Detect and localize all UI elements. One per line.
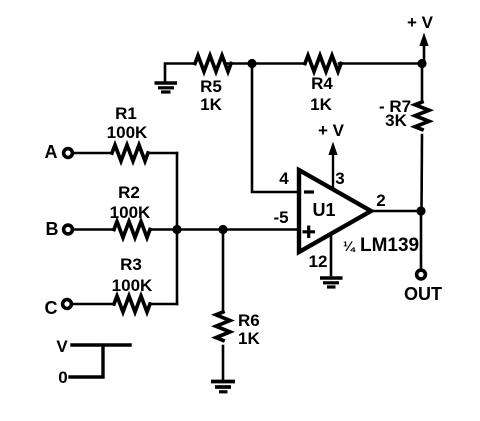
svg-text:¼ LM139: ¼ LM139 xyxy=(343,235,419,256)
svg-text:R3: R3 xyxy=(120,255,142,274)
svg-text:1K: 1K xyxy=(200,95,222,114)
svg-text:+ V: + V xyxy=(407,13,434,32)
svg-text:3: 3 xyxy=(335,169,344,188)
svg-text:R6: R6 xyxy=(238,311,260,330)
svg-text:R1: R1 xyxy=(115,104,137,123)
svg-text:1K: 1K xyxy=(238,329,260,348)
svg-text:4: 4 xyxy=(279,169,289,188)
svg-text:V: V xyxy=(56,337,68,356)
svg-text:100K: 100K xyxy=(107,123,148,142)
svg-text:12: 12 xyxy=(309,252,328,271)
svg-text:A: A xyxy=(45,142,58,162)
svg-text:U1: U1 xyxy=(312,200,335,220)
svg-text:B: B xyxy=(46,219,59,239)
svg-text:R4: R4 xyxy=(311,74,333,93)
svg-text:3K: 3K xyxy=(385,111,407,130)
svg-text:OUT: OUT xyxy=(404,284,442,304)
svg-text:100K: 100K xyxy=(110,203,151,222)
svg-text:100K: 100K xyxy=(112,276,153,295)
svg-text:R5: R5 xyxy=(200,77,222,96)
svg-text:R2: R2 xyxy=(118,183,140,202)
svg-text:1K: 1K xyxy=(310,95,332,114)
svg-text:+ V: + V xyxy=(318,121,345,140)
svg-text:-5: -5 xyxy=(273,208,288,227)
svg-text:0: 0 xyxy=(58,368,67,387)
svg-text:2: 2 xyxy=(376,191,385,210)
svg-text:C: C xyxy=(45,298,58,318)
